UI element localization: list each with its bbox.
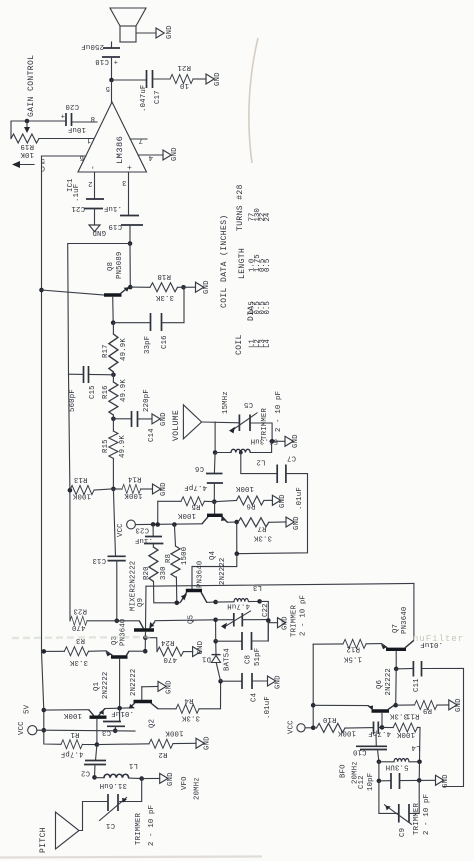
svg-text:GND: GND: [279, 494, 287, 508]
svg-text:-: -: [89, 165, 98, 170]
svg-text:C11: C11: [413, 678, 421, 692]
resistor R13 100K: [70, 475, 94, 500]
wire R21 to ground: [193, 78, 206, 80]
svg-text:.047uF: .047uF: [140, 85, 148, 112]
ground (speaker): [156, 25, 174, 39]
svg-text:4.7pF: 4.7pF: [184, 483, 207, 491]
svg-text:4: 4: [148, 153, 153, 161]
wire C21 to ground: [94, 209, 96, 226]
node gain control: [25, 119, 30, 124]
node rail VCC: [42, 728, 47, 733]
node Q8 collector: [111, 320, 116, 325]
svg-text:5: 5: [105, 84, 110, 92]
wire rail to Q8 base: [42, 290, 105, 295]
node rail base: [39, 288, 44, 293]
svg-text:L4: L4: [411, 743, 421, 751]
node R8 bottom: [175, 601, 180, 606]
capacitor C2 4.7pF: [61, 745, 106, 778]
svg-text:R12: R12: [346, 645, 360, 653]
svg-text:C6: C6: [195, 464, 204, 472]
svg-text:560pF: 560pF: [69, 389, 77, 412]
BFO left rail: [312, 644, 314, 728]
node C12 left: [377, 779, 382, 784]
wire L1 to ground: [142, 777, 160, 779]
node L4 left: [377, 760, 382, 765]
inductor L4 5.3uH: [379, 743, 421, 771]
svg-text:GND: GND: [275, 675, 283, 689]
transistor Q1 2N2222: [89, 672, 110, 745]
transistor Q7 PN3640: [381, 607, 414, 669]
wire C14 to ground: [138, 418, 153, 420]
svg-text:C20: C20: [65, 102, 79, 110]
ground (tank): [278, 616, 290, 630]
node rail VCC BFO: [311, 726, 316, 731]
svg-text:COIL: COIL: [235, 334, 244, 355]
wire speaker to ground: [136, 32, 156, 34]
svg-text:330: 330: [160, 566, 168, 580]
svg-text:PITCH: PITCH: [39, 827, 48, 853]
capacitor C23 .1uF: [135, 524, 164, 547]
wire to ground (tank BFO): [419, 779, 435, 781]
node C3 bottom: [113, 729, 118, 734]
svg-text:BFO: BFO: [340, 764, 348, 778]
capacitor C10: [353, 735, 387, 762]
ground (C14): [152, 412, 168, 426]
node R17/R16: [111, 373, 116, 378]
resistor R12 1.5K: [313, 639, 381, 662]
resistor R1 100K: [61, 711, 97, 749]
svg-text:100K: 100K: [63, 711, 82, 719]
svg-text:PN5089: PN5089: [116, 252, 124, 279]
wire Q3 collector: [129, 650, 145, 652]
resistor R5 100K: [158, 497, 215, 519]
svg-text:GND: GND: [160, 412, 168, 426]
resistor R16 49.9K: [102, 372, 128, 415]
svg-text:R19: R19: [20, 142, 34, 150]
resistor R11: [382, 712, 420, 763]
svg-text:GND: GND: [293, 516, 301, 530]
capacitor C19: [108, 216, 143, 231]
potentiometer R19 10K wiper arrow: [26, 121, 28, 128]
svg-text:L4: L4: [264, 339, 272, 348]
pin 4 wire: [138, 154, 163, 156]
node L3 left: [213, 600, 218, 605]
svg-text:C14: C14: [148, 428, 156, 442]
svg-text:C17: C17: [154, 90, 162, 104]
svg-text:MIXER2N2222: MIXER2N2222: [130, 561, 138, 611]
svg-text:10: 10: [180, 81, 189, 89]
resistor R14 100K: [122, 475, 143, 500]
node R9: [393, 703, 398, 708]
ground (Q2 base): [158, 680, 174, 694]
svg-text:1.5K: 1.5K: [343, 655, 362, 663]
svg-text:+: +: [60, 111, 65, 119]
svg-text:R17: R17: [102, 344, 110, 358]
pin 8 wire: [72, 121, 98, 123]
trimmer C1 2-10pF: [100, 779, 157, 846]
svg-text:R4: R4: [184, 696, 194, 704]
svg-text:R24: R24: [160, 638, 174, 646]
wire C20 to pot node: [11, 121, 66, 139]
svg-text:VCC: VCC: [117, 523, 125, 537]
svg-text:COIL DATA (INCHES): COIL DATA (INCHES): [220, 214, 229, 308]
svg-text:Q1: Q1: [93, 681, 101, 691]
node rail R3: [42, 649, 47, 654]
svg-text:2N2222: 2N2222: [219, 558, 227, 585]
svg-text:VCC: VCC: [18, 721, 26, 735]
svg-text:C5: C5: [244, 400, 253, 408]
node C8 tap: [213, 639, 218, 644]
ground (R9): [449, 698, 463, 712]
svg-text:GND: GND: [292, 434, 300, 448]
wire R20 bottom: [154, 581, 180, 602]
wire across to left rail2: [68, 244, 130, 375]
svg-text:1500: 1500: [181, 547, 189, 565]
node Q1 base: [95, 742, 100, 747]
trimmer C9 2-10pF: [379, 780, 431, 837]
node C12 right: [417, 778, 422, 783]
svg-text:3.3K: 3.3K: [69, 658, 88, 666]
capacitor C18 250uF: [81, 42, 120, 65]
svg-text:TRIMMER: TRIMMER: [413, 803, 421, 835]
node tank gnd: [266, 618, 271, 623]
svg-text:R14: R14: [127, 475, 141, 483]
ground (R14): [153, 482, 169, 496]
node Q8 emitter: [128, 285, 133, 290]
node R5 drop: [155, 522, 160, 527]
svg-text:0.5: 0.5: [264, 259, 272, 272]
svg-text:R23: R23: [73, 607, 87, 615]
wire node to ground: [268, 621, 277, 623]
svg-text:2 - 10 pF: 2 - 10 pF: [148, 805, 156, 846]
svg-text:2N2222: 2N2222: [102, 672, 110, 699]
svg-text:33pF: 33pF: [144, 336, 152, 354]
wire node to pin5: [111, 80, 113, 102]
svg-text:C: C: [40, 164, 45, 172]
left rail2 down: [69, 374, 71, 621]
VCC terminal 5V: [18, 704, 44, 735]
svg-text:R2: R2: [158, 750, 167, 758]
arrow off page: [16, 164, 34, 166]
capacitor C3 .01uF: [102, 708, 134, 736]
capacitor C15 560pF: [69, 366, 98, 412]
wire C19 down: [129, 225, 131, 244]
svg-text:3: 3: [122, 178, 127, 186]
wire Q2 base to ground: [142, 685, 158, 687]
svg-text:TRIMMER: TRIMMER: [291, 605, 299, 637]
capacitor C11 .01uF: [396, 640, 443, 692]
svg-text:2 - 10 pF: 2 - 10 pF: [300, 595, 308, 636]
svg-text:C19: C19: [108, 222, 122, 230]
mixer injection line (BFO): [146, 584, 414, 587]
node C23 top: [151, 522, 156, 527]
potentiometer R19 10K: [11, 134, 39, 158]
svg-text:7: 7: [138, 136, 143, 144]
svg-text:GND: GND: [166, 25, 174, 39]
antenna VOLUME: [172, 405, 202, 441]
pin 7 stub: [130, 138, 147, 140]
svg-text:250uF: 250uF: [81, 42, 104, 50]
svg-text:GAIN CONTROL: GAIN CONTROL: [27, 55, 36, 117]
node C4 tap: [218, 679, 223, 684]
ground (R6): [272, 494, 287, 508]
pin 2 wire: [94, 172, 96, 199]
svg-text:100K: 100K: [337, 729, 356, 737]
node C19 bottom: [128, 241, 133, 246]
node R13/R14/R15: [111, 487, 116, 492]
svg-text:10K: 10K: [20, 150, 34, 158]
svg-text:R8: R8: [165, 554, 173, 563]
trimmer C5 2-10pF: [229, 391, 283, 440]
svg-text:.1uF: .1uF: [135, 536, 153, 544]
svg-text:VFO: VFO: [181, 776, 189, 790]
node Q6 base: [380, 725, 385, 730]
capacitor C13 .1uF: [92, 556, 125, 621]
svg-text:5: 5: [40, 156, 45, 164]
svg-text:GND: GND: [160, 482, 168, 496]
scan artifact faint streak left: [12, 637, 150, 638]
node L1 left: [92, 775, 97, 780]
svg-text:20MHz: 20MHz: [194, 777, 202, 800]
ground (L1): [160, 772, 175, 786]
capacitor C21 .1uF: [71, 199, 122, 212]
svg-text:49.9K: 49.9K: [119, 435, 127, 458]
svg-text:R21: R21: [177, 63, 191, 71]
wire line down to Q9: [145, 586, 148, 629]
svg-text:2: 2: [88, 179, 93, 187]
transistor Q5 PN3640: [180, 561, 207, 624]
wire C17 to R21: [153, 78, 171, 80]
wire Q6 emitter to Q7 base: [395, 669, 396, 705]
ground (pin4): [163, 147, 179, 161]
svg-text:R1: R1: [70, 730, 80, 738]
svg-text:C1: C1: [105, 821, 115, 829]
wire speaker to C18: [111, 42, 113, 48]
node output: [109, 78, 114, 83]
wire node to ground: [272, 440, 285, 442]
ground (R21): [206, 72, 222, 86]
node L4 right: [417, 760, 422, 765]
resistor R10 100K: [313, 715, 373, 737]
svg-text:GND: GND: [455, 698, 463, 712]
inductor L2 56.3uH: [215, 437, 278, 466]
svg-text:4.7pF: 4.7pF: [61, 750, 84, 758]
wire C7 feedback loop: [237, 474, 308, 554]
node Q9 base / Q3 collector: [143, 635, 148, 640]
svg-text:100K: 100K: [165, 729, 184, 737]
node Q4 emitter feedback: [235, 551, 240, 556]
svg-text:3.3K: 3.3K: [155, 293, 174, 301]
wire node to C14: [113, 418, 131, 420]
svg-text:L2: L2: [256, 458, 265, 466]
svg-text:R5: R5: [191, 502, 200, 510]
svg-text:R15: R15: [102, 439, 110, 453]
ground (R2): [196, 736, 212, 750]
svg-text:BAT54: BAT54: [224, 648, 232, 671]
resistor R21 10: [170, 63, 193, 89]
svg-text:51pF: 51pF: [254, 648, 262, 666]
wire rail to Q1: [44, 709, 89, 711]
capacitor C17 .047uF: [140, 70, 162, 112]
wire down to Q8 emitter: [129, 244, 131, 288]
VCC rail wire: [135, 523, 202, 526]
capacitor C7: [277, 454, 296, 484]
wire Q9 base down: [144, 632, 146, 638]
ground (C5): [285, 434, 300, 448]
VCC terminal: [117, 520, 135, 537]
node R8 top: [172, 522, 177, 527]
wire D1 to tank: [215, 620, 217, 641]
svg-text:56.3uH: 56.3uH: [251, 437, 278, 445]
svg-text:20MHz: 20MHz: [352, 761, 360, 784]
svg-text:TRIMMER: TRIMMER: [135, 813, 143, 845]
wire R13 to node: [94, 489, 113, 490]
svg-text:2 - 10 pF: 2 - 10 pF: [423, 794, 431, 835]
svg-text:R11: R11: [405, 712, 419, 720]
svg-text:.01uF: .01uF: [111, 709, 134, 717]
svg-text:nuFilter: nuFilter: [413, 634, 464, 644]
wire R19 to pin 1: [39, 138, 94, 140]
svg-text:5.3UH: 5.3UH: [386, 763, 409, 771]
svg-text:3.3K: 3.3K: [389, 712, 408, 720]
svg-text:GND: GND: [214, 72, 222, 86]
resistor R23 470: [70, 607, 139, 632]
ground (BFO tank): [436, 774, 451, 788]
svg-text:220pF: 220pF: [143, 389, 151, 412]
ground (R18): [196, 280, 212, 294]
wire to Q5 base: [192, 554, 237, 590]
wire VCC bypass rail: [44, 729, 135, 732]
svg-text:10uF: 10uF: [68, 125, 86, 133]
svg-text:C2: C2: [81, 769, 90, 777]
node rail Q1 wire: [42, 708, 47, 713]
wire C18 to node: [111, 57, 113, 80]
wire node to C15: [89, 374, 114, 376]
wire tap to C7: [241, 453, 277, 474]
wire collector to C16: [113, 322, 150, 324]
scan artifact curve: [249, 38, 258, 163]
svg-text:470: 470: [163, 655, 177, 663]
resistor R2 100K: [97, 729, 196, 759]
svg-text:3.3K: 3.3K: [253, 534, 272, 542]
node tank top: [270, 439, 275, 444]
svg-text:GND: GND: [167, 772, 175, 786]
svg-text:TRIMMER: TRIMMER: [261, 408, 269, 440]
svg-text:49.9K: 49.9K: [120, 379, 128, 402]
svg-text:C9: C9: [399, 828, 407, 837]
svg-text:100K: 100K: [177, 511, 196, 519]
svg-text:R20: R20: [143, 566, 151, 580]
wire Q1 emitter to Q2: [105, 707, 134, 710]
transistor Q4 2N2222: [202, 502, 228, 585]
svg-text:LENGTH: LENGTH: [238, 248, 247, 279]
VCC terminal (BFO): [288, 720, 314, 734]
wire injection line down to Q7: [413, 584, 415, 641]
resistor R18 3.3K: [150, 272, 178, 301]
svg-text:C15: C15: [89, 385, 97, 399]
svg-text:.01uF: .01uF: [296, 487, 304, 510]
svg-text:C10: C10: [353, 748, 367, 756]
svg-text:4.7pF: 4.7pF: [368, 729, 391, 737]
pin 3 wire: [128, 172, 130, 216]
svg-text:C8: C8: [245, 655, 253, 664]
node Q4 emitter: [234, 520, 239, 525]
svg-text:31.6uH: 31.6uH: [100, 781, 127, 789]
svg-text:1: 1: [86, 136, 91, 144]
wire node to R14: [113, 488, 122, 490]
resistor R9: [396, 701, 449, 715]
node Q4 base: [212, 499, 217, 504]
resistor R15 49.9K: [102, 431, 127, 459]
svg-text:C13: C13: [92, 556, 106, 564]
speaker SPK1: [110, 8, 146, 42]
svg-text:GND: GND: [197, 640, 205, 654]
svg-text:R18: R18: [157, 272, 171, 280]
svg-text:VCC: VCC: [288, 720, 296, 734]
supply rail vertical: [41, 156, 43, 652]
resistor R4 3.3K: [158, 681, 221, 721]
svg-text:GND: GND: [92, 228, 106, 236]
inductor L3 4.7uH: [216, 583, 262, 610]
node Q7 base / C11: [394, 667, 399, 672]
svg-text:R6: R6: [246, 502, 255, 510]
wire Q9 node down to Q3: [144, 638, 146, 652]
wire L3 to gnd node: [260, 601, 269, 620]
node R18 right: [181, 285, 186, 290]
node R16 bottom: [111, 417, 116, 422]
svg-text:R16: R16: [102, 385, 110, 399]
svg-text:2N2222: 2N2222: [385, 668, 393, 695]
svg-text:.1uF: .1uF: [73, 184, 81, 202]
svg-text:R7: R7: [257, 524, 266, 532]
svg-text:R13: R13: [74, 475, 88, 483]
svg-text:GND: GND: [166, 680, 174, 694]
svg-text:0.5: 0.5: [264, 301, 272, 314]
wire C5 to gnd node: [250, 423, 272, 441]
rail down to R1: [42, 652, 62, 745]
svg-text:10pF: 10pF: [367, 773, 375, 791]
svg-text:5V: 5V: [24, 704, 32, 714]
resistor R17 49.9K: [102, 323, 128, 372]
resistor R3 3.3K: [44, 636, 106, 666]
node Q3 base / C3: [117, 706, 122, 711]
svg-text:Q8: Q8: [107, 262, 115, 271]
wire Q4 emitter to node: [228, 521, 237, 523]
wire Q9 emitter to tank: [155, 619, 216, 622]
svg-text:8: 8: [90, 114, 95, 122]
svg-text:C4: C4: [251, 692, 259, 702]
capacitor C16 33pF: [144, 313, 169, 354]
wire antenna node down: [214, 422, 216, 453]
svg-text:+: +: [126, 165, 135, 170]
wire antenna to C5: [202, 421, 240, 424]
wire L4 columns: [379, 762, 420, 781]
svg-text:VOLUME: VOLUME: [172, 410, 181, 441]
ground (R7): [286, 516, 301, 530]
svg-text:GND: GND: [204, 736, 212, 750]
svg-text:4.7uH: 4.7uH: [227, 602, 250, 610]
transistor Q9 MIXER 2N2222: [130, 561, 156, 630]
wire R18 to ground: [178, 286, 196, 288]
antenna PITCH: [39, 802, 108, 854]
svg-text:GND: GND: [282, 616, 290, 630]
svg-text:L3: L3: [253, 583, 262, 591]
svg-text:GND: GND: [442, 774, 450, 788]
ground (R24): [193, 640, 205, 656]
node Q3 collector wire: [143, 649, 148, 654]
svg-text:100K: 100K: [396, 730, 415, 738]
svg-text:C3: C3: [102, 728, 111, 736]
